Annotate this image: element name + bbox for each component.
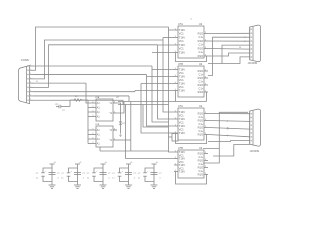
svg-text:VC1: VC1 <box>179 33 184 36</box>
svg-text:VC1: VC1 <box>179 40 184 43</box>
svg-text:1u: 1u <box>138 178 140 180</box>
svg-text:C?: C? <box>138 173 140 175</box>
svg-text:R1O: R1O <box>198 133 204 137</box>
svg-text:U?A: U?A <box>178 105 183 108</box>
svg-text:C?: C? <box>112 173 114 175</box>
svg-text:R1O: R1O <box>198 76 204 80</box>
svg-text:U?B: U?B <box>178 147 183 150</box>
svg-text:1u: 1u <box>61 178 63 180</box>
svg-text:R1O: R1O <box>198 39 204 43</box>
svg-text:1: 1 <box>30 94 31 96</box>
svg-text:1: 1 <box>30 69 31 71</box>
svg-text:T1IN: T1IN <box>179 124 185 128</box>
svg-text:R1O: R1O <box>198 54 204 58</box>
svg-text:C1+: C1+ <box>199 51 204 54</box>
svg-text:C?: C? <box>57 173 59 175</box>
svg-text:CONN: CONN <box>21 58 29 62</box>
svg-text:T1IN: T1IN <box>179 157 185 161</box>
svg-text:VC1: VC1 <box>179 48 184 51</box>
svg-text:1: 1 <box>30 82 31 84</box>
svg-text:T1IN: T1IN <box>179 28 185 32</box>
svg-text:C?: C? <box>61 173 63 175</box>
svg-text:R1O: R1O <box>198 32 204 36</box>
svg-text:R1O: R1O <box>198 159 204 163</box>
svg-text:T1IN: T1IN <box>179 82 185 86</box>
svg-text:.1: .1 <box>159 178 161 180</box>
svg-text:R1O: R1O <box>198 152 204 156</box>
svg-text:T1IN: T1IN <box>179 36 185 40</box>
svg-text:.1: .1 <box>108 178 110 180</box>
svg-text:C?: C? <box>83 173 85 175</box>
svg-text:R1O: R1O <box>198 69 204 73</box>
svg-text:T1IN: T1IN <box>179 163 185 167</box>
svg-text:R1O: R1O <box>198 112 204 116</box>
svg-text:T1IN: T1IN <box>179 110 185 114</box>
svg-text:C1+: C1+ <box>199 44 204 47</box>
svg-text:1: 1 <box>30 77 31 79</box>
svg-text:U?A: U?A <box>178 23 183 26</box>
svg-text:1: 1 <box>30 65 31 67</box>
svg-text:1: 1 <box>30 86 31 88</box>
svg-text:R1O: R1O <box>198 83 204 87</box>
svg-text:T1IN: T1IN <box>179 43 185 47</box>
svg-text:R1O: R1O <box>198 119 204 123</box>
svg-text:R1O: R1O <box>198 90 204 94</box>
svg-text:J1CONN: J1CONN <box>250 150 260 153</box>
svg-text:1: 1 <box>30 99 31 101</box>
svg-text:1u: 1u <box>87 178 89 180</box>
svg-text:C?: C? <box>134 173 136 175</box>
svg-text:R1O: R1O <box>198 47 204 51</box>
svg-text:C?: C? <box>36 173 38 175</box>
svg-text:C?: C? <box>159 173 161 175</box>
svg-text:1: 1 <box>30 73 31 75</box>
svg-text:T1IN: T1IN <box>179 68 185 72</box>
svg-text:1u: 1u <box>112 178 114 180</box>
svg-text:T1IN: T1IN <box>179 89 185 93</box>
svg-text:1: 1 <box>30 90 31 92</box>
svg-text:C1+: C1+ <box>199 36 204 39</box>
svg-text:T1IN: T1IN <box>179 150 185 154</box>
svg-text:R1O: R1O <box>198 166 204 170</box>
svg-text:T1IN: T1IN <box>179 170 185 174</box>
svg-text:R1O: R1O <box>198 126 204 130</box>
svg-text:T1IN: T1IN <box>179 131 185 135</box>
svg-text:U?A: U?A <box>95 96 100 99</box>
svg-text:.1: .1 <box>57 178 59 180</box>
svg-text:T1IN: T1IN <box>179 75 185 79</box>
svg-text:J1CONN: J1CONN <box>248 62 258 65</box>
svg-text:14: 14 <box>190 19 192 21</box>
svg-text:C?: C? <box>108 173 110 175</box>
svg-text:.1: .1 <box>134 178 136 180</box>
svg-text:R1O: R1O <box>198 173 204 177</box>
svg-text:U?B: U?B <box>178 63 183 66</box>
svg-text:1u: 1u <box>36 178 38 180</box>
svg-text:C?: C? <box>87 173 89 175</box>
svg-text:.1: .1 <box>83 178 85 180</box>
svg-text:T1IN: T1IN <box>179 117 185 121</box>
svg-text:T1IN: T1IN <box>179 51 185 55</box>
